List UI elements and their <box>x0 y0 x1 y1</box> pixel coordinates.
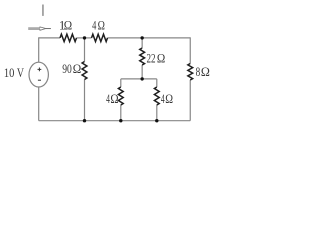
svg-text:90: 90 <box>62 61 72 76</box>
wire left rail upper <box>38 37 40 62</box>
wire top-right segment <box>108 37 191 39</box>
wire top-left segment <box>39 37 60 39</box>
resistor 90 ohm (vertical zigzag) <box>82 62 87 80</box>
wire left 4ohm branch lower <box>120 105 122 121</box>
svg-text:Ω: Ω <box>110 91 118 106</box>
wire right 4ohm branch lower <box>156 105 158 121</box>
svg-text:8: 8 <box>196 64 201 79</box>
current direction arrow <box>28 27 46 30</box>
svg-text:Ω: Ω <box>73 61 82 76</box>
wire parallel rail <box>121 78 157 80</box>
wire left rail lower <box>38 87 40 121</box>
voltage source plus sign <box>38 68 42 72</box>
wire right rail upper <box>189 37 191 63</box>
resistor 4 ohm right (vertical zigzag) <box>154 87 159 105</box>
resistor 4 ohm left (vertical zigzag) <box>118 87 123 105</box>
wire left 4ohm branch upper <box>120 79 122 87</box>
junction node bottom of 90ohm <box>83 119 86 122</box>
wire between R 1ohm and R 4ohm <box>77 37 92 39</box>
wire 90ohm branch lower <box>84 80 86 121</box>
svg-text:22: 22 <box>147 51 156 66</box>
wire right 4ohm branch upper <box>156 79 158 87</box>
junction node bottom of right 4ohm <box>155 119 158 122</box>
resistor 4 ohm top (horizontal zigzag) <box>92 34 108 41</box>
svg-text:Ω: Ω <box>165 91 173 106</box>
junction node bottom of left 4ohm <box>119 119 122 122</box>
voltage source minus sign <box>38 79 41 81</box>
resistor 1 ohm (horizontal zigzag) <box>60 34 77 41</box>
wire 22ohm branch upper <box>141 38 143 48</box>
wire 90ohm branch upper <box>84 38 86 62</box>
svg-text:Ω: Ω <box>157 51 165 66</box>
voltage source V1 10V circle <box>29 62 48 87</box>
svg-text:10: 10 <box>4 65 15 80</box>
resistor 22 ohm (vertical zigzag) <box>140 48 145 65</box>
svg-text:Ω: Ω <box>98 18 105 33</box>
svg-text:Ω: Ω <box>201 64 210 79</box>
wire right rail lower <box>189 80 191 121</box>
junction node between 1ohm and 4ohm (top of 90ohm) <box>83 36 86 39</box>
wire 22ohm branch lower <box>141 65 143 79</box>
junction node top of 22ohm <box>140 36 143 39</box>
current label I <box>42 5 43 16</box>
svg-text:V: V <box>17 65 25 80</box>
junction node bottom of 22ohm on parallel rail <box>140 77 143 80</box>
svg-text:4: 4 <box>92 18 97 33</box>
svg-text:Ω: Ω <box>64 18 72 33</box>
resistor 8 ohm (vertical zigzag) <box>188 64 193 81</box>
wire bottom rail <box>39 120 191 122</box>
